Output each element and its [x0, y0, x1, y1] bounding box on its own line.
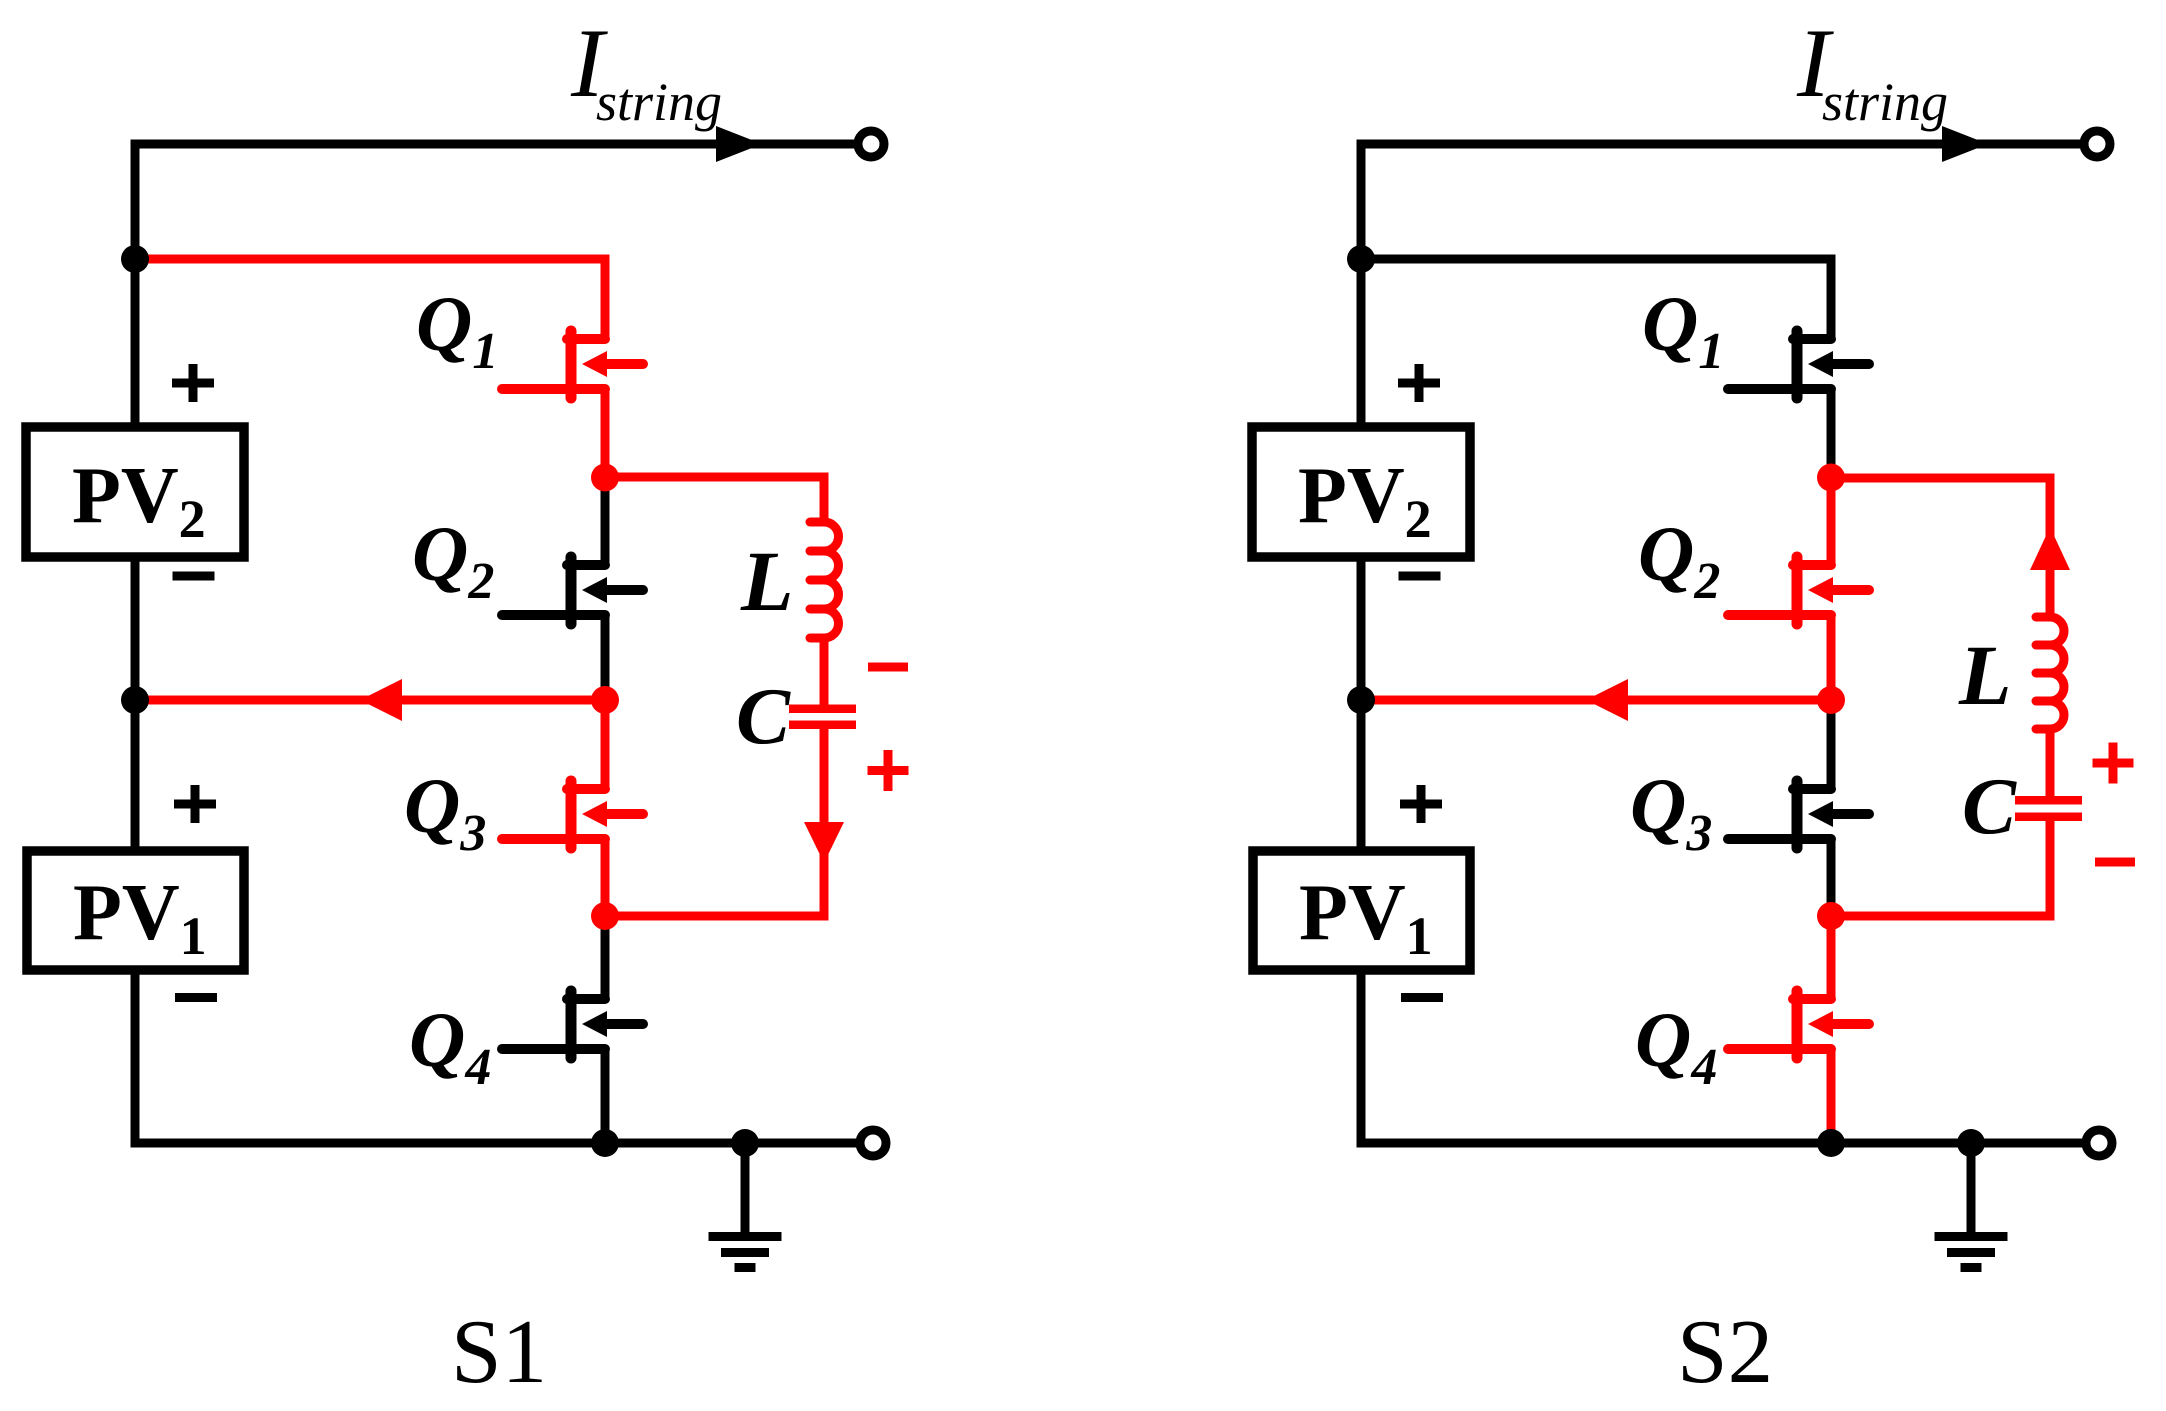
svg-text:string: string — [596, 72, 722, 132]
transistor Q1 (S1) — [502, 331, 643, 398]
wire: Q2 drain vertical (S2) — [1827, 477, 1836, 565]
wire: left rail upper segment (S1) — [131, 140, 140, 428]
transistor Q1 (S2) — [1728, 331, 1869, 398]
node B: Q1 source / branch top (S1) — [591, 464, 619, 492]
capacitor polarity - (S1) — [868, 663, 908, 672]
wire: PV2+ node to Q1 drain (S2) — [1361, 255, 1836, 264]
wire: left rail lower segment (S1) — [131, 970, 140, 1148]
terminal: bottom output (S2) — [2086, 1130, 2112, 1156]
polarity + of PV1 (S1) — [174, 785, 216, 823]
wire: Q4 source to bottom rail (S2) — [1827, 1049, 1836, 1143]
transistor Q4 (S2) — [1728, 991, 1869, 1058]
polarity - of PV1 (S1) — [175, 993, 217, 1002]
wire: Q1 drain vertical (S1) — [601, 259, 610, 339]
node: mid switch node (S2) — [1817, 686, 1845, 714]
PV1 box (S1) — [27, 851, 244, 970]
polarity - of PV2 (S2) — [1399, 572, 1441, 581]
wire: top output line (S2) — [1357, 140, 2084, 149]
current arrow on mid link (S2) — [1586, 679, 1628, 721]
wire: left rail lower segment (S2) — [1357, 970, 1366, 1148]
wire: Q2 source to mid node (S1) — [601, 615, 610, 700]
PV2 box (S2) — [1252, 427, 1470, 557]
wire: mid link PV junction to switch node (S2) — [1361, 696, 1831, 705]
inductor L (S2) — [2050, 617, 2064, 729]
wire: Q4 drain vertical (S1) — [601, 916, 610, 999]
polarity - of PV2 (S1) — [173, 572, 215, 581]
capacitor polarity + (S2) — [2093, 743, 2134, 784]
node E: branch bottom (S1) — [591, 902, 619, 930]
svg-text:C: C — [736, 671, 791, 761]
transistor Q2 (S2) — [1728, 557, 1869, 624]
I_string current arrow (S1) — [716, 126, 762, 162]
node B: Q1 source / branch top (S2) — [1817, 464, 1845, 492]
svg-text:L: L — [740, 533, 794, 629]
transistor Q3 (S2) — [1728, 781, 1869, 848]
wire: capacitor to node E (S2) — [1831, 821, 2050, 916]
current arrow in branch (down) (S1) — [804, 822, 844, 863]
polarity + of PV2 (S2) — [1398, 364, 1440, 402]
polarity - of PV1 (S2) — [1401, 993, 1443, 1002]
node: bottom rail junction (S1) — [591, 1129, 619, 1157]
node: rail mid junction (S1) — [121, 686, 149, 714]
wire: Q1 drain vertical (S2) — [1827, 259, 1836, 339]
wire: node B to inductor top (S2) — [1831, 478, 2050, 617]
node: rail top junction (S2) — [1347, 245, 1375, 273]
node: rail top junction (S1) — [121, 245, 149, 273]
capacitor polarity + (S1) — [868, 750, 909, 791]
transistor Q2 (S1) — [502, 557, 643, 624]
ground symbol (S2) — [1935, 1143, 2008, 1268]
wire: left rail middle segment (S1) — [131, 557, 140, 851]
PV1 box (S2) — [1253, 851, 1470, 970]
node: ground junction (S1) — [731, 1129, 759, 1157]
node: bottom rail junction (S2) — [1817, 1129, 1845, 1157]
wire: Q2 source to mid node (S2) — [1827, 615, 1836, 700]
capacitor C (S1) — [789, 705, 856, 730]
ground symbol (S1) — [709, 1143, 782, 1268]
wire: Q4 drain vertical (S2) — [1827, 916, 1836, 999]
wire: Q2 drain vertical (S1) — [601, 477, 610, 565]
svg-text:S1: S1 — [451, 1301, 547, 1402]
polarity + of PV1 (S2) — [1400, 785, 1442, 823]
svg-text:string: string — [1822, 72, 1948, 132]
wire: Q1 source to node B (S1) — [601, 389, 610, 477]
wire: Q4 source to bottom rail (S1) — [601, 1049, 610, 1143]
node: mid switch node (S1) — [591, 686, 619, 714]
svg-text:S2: S2 — [1677, 1301, 1773, 1402]
wire: Q1 source to node B (S2) — [1827, 389, 1836, 477]
wire: Q3 source to node E (S2) — [1827, 839, 1836, 916]
wire: capacitor to node E (S1) — [605, 729, 824, 916]
svg-text:L: L — [1958, 627, 2012, 723]
I_string current arrow (S2) — [1942, 126, 1988, 162]
wire: bottom return line (S2) — [1357, 1139, 2086, 1148]
wire: mid link PV junction to switch node (S1) — [135, 696, 605, 705]
polarity + of PV2 (S1) — [172, 364, 214, 402]
wire: Q3 source to node E (S1) — [601, 839, 610, 916]
current arrow in branch (up) (S2) — [2030, 527, 2070, 570]
wire: left rail middle segment (S2) — [1357, 557, 1366, 851]
wire: Q3 drain vertical (S1) — [601, 700, 610, 789]
transistor Q4 (S1) — [502, 991, 643, 1058]
inductor L (S1) — [824, 522, 839, 638]
svg-text:C: C — [1962, 761, 2017, 851]
capacitor C (S2) — [2015, 796, 2082, 821]
wire: inductor to capacitor (S1) — [820, 638, 829, 706]
PV2 box (S1) — [26, 427, 244, 557]
wire: node B to inductor top (S1) — [605, 477, 824, 522]
transistor Q3 (S1) — [502, 781, 643, 848]
wire: bottom return line (S1) — [131, 1139, 860, 1148]
wire: PV2+ node to Q1 drain (S1) — [135, 255, 610, 264]
wire: Q3 drain vertical (S2) — [1827, 700, 1836, 789]
terminal: top output (S2) — [2084, 131, 2110, 157]
node: rail mid junction (S2) — [1347, 686, 1375, 714]
current arrow on mid link (S1) — [360, 679, 402, 721]
wire: left rail upper segment (S2) — [1357, 140, 1366, 428]
node: ground junction (S2) — [1957, 1129, 1985, 1157]
terminal: bottom output (S1) — [860, 1130, 886, 1156]
wire: top output line (S1) — [131, 140, 858, 149]
capacitor polarity - (S2) — [2095, 858, 2135, 867]
wire: inductor to capacitor (S2) — [2046, 729, 2055, 798]
node E: branch bottom (S2) — [1817, 902, 1845, 930]
terminal: top output (S1) — [858, 131, 884, 157]
